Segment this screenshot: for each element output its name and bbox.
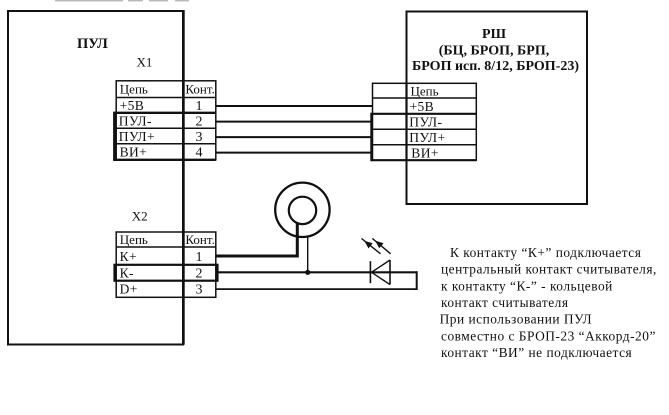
- svg-text:Цепь: Цепь: [120, 82, 148, 97]
- svg-text:к контакту “К-” - кольцевой: к контакту “К-” - кольцевой: [441, 278, 613, 293]
- svg-text:2: 2: [196, 266, 203, 281]
- svg-text:БРОП исп. 8/12, БРОП-23): БРОП исп. 8/12, БРОП-23): [412, 59, 579, 74]
- svg-text:ВИ+: ВИ+: [120, 144, 148, 159]
- svg-text:1: 1: [196, 99, 203, 114]
- svg-text:Цепь: Цепь: [120, 232, 148, 247]
- svg-text:центральный контакт считывател: центральный контакт считывателя,: [441, 262, 657, 277]
- svg-text:D+: D+: [120, 281, 138, 296]
- svg-text:2: 2: [196, 114, 203, 129]
- svg-text:ПУЛ-: ПУЛ-: [409, 115, 442, 130]
- svg-text:К+: К+: [120, 249, 137, 264]
- svg-text:4: 4: [196, 145, 203, 160]
- svg-text:Цепь: Цепь: [411, 83, 439, 98]
- svg-text:РШ: РШ: [482, 27, 507, 42]
- svg-text:К контакту “К+” подключается: К контакту “К+” подключается: [450, 245, 641, 260]
- svg-text:3: 3: [196, 282, 203, 297]
- svg-text:ПУЛ: ПУЛ: [77, 36, 108, 52]
- svg-text:1: 1: [196, 250, 203, 265]
- svg-text:При использовании ПУЛ: При использовании ПУЛ: [440, 312, 593, 327]
- svg-text:ПУЛ+: ПУЛ+: [409, 130, 445, 145]
- svg-text:X1: X1: [137, 54, 153, 69]
- svg-text:Конт.: Конт.: [185, 82, 214, 97]
- svg-text:+5В: +5В: [410, 99, 435, 114]
- svg-text:ПУЛ-: ПУЛ-: [119, 113, 152, 128]
- svg-text:К-: К-: [120, 265, 134, 280]
- svg-text:+5В: +5В: [120, 98, 145, 113]
- svg-text:контакт “ВИ” не подключается: контакт “ВИ” не подключается: [441, 345, 632, 360]
- svg-text:ПУЛ+: ПУЛ+: [119, 129, 155, 144]
- svg-text:3: 3: [196, 130, 203, 145]
- svg-text:(БЦ, БРОП, БРП,: (БЦ, БРОП, БРП,: [439, 44, 550, 59]
- svg-text:ВИ+: ВИ+: [411, 146, 439, 161]
- svg-text:X2: X2: [132, 208, 148, 223]
- svg-text:совместно с БРОП-23 “Аккорд-20: совместно с БРОП-23 “Аккорд-20”: [441, 328, 656, 343]
- svg-text:контакт считывателя: контакт считывателя: [441, 295, 568, 310]
- svg-text:Конт.: Конт.: [185, 232, 214, 247]
